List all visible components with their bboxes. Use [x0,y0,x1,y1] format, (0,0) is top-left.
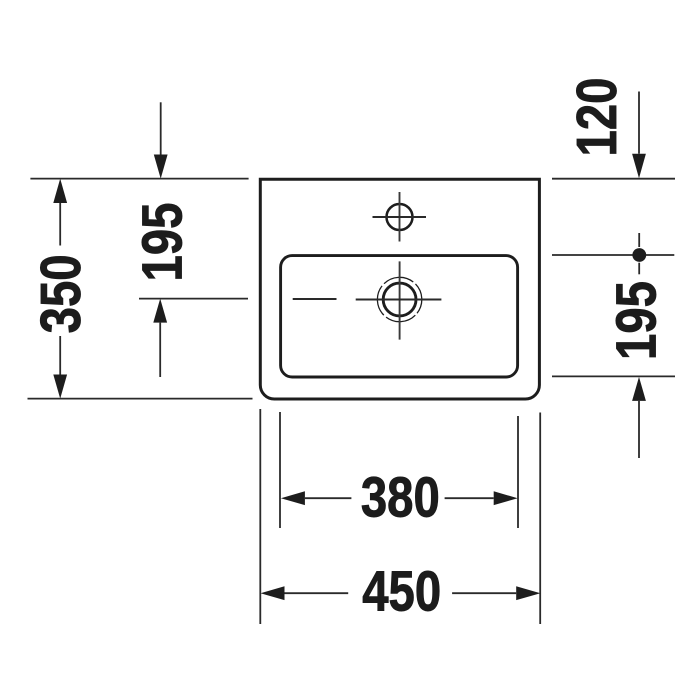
faucet hole vertical centerline [399,192,401,242]
svg-text:450: 450 [362,560,441,623]
dimension 120 arrow (pointing down) [632,92,646,179]
overflow vertical centerline [399,261,401,339]
extension line bottom far-right (450 datum) [539,413,541,625]
faucet hole circle [387,204,413,230]
svg-text:195: 195 [605,281,668,360]
dimension 450 right arrow [452,586,540,600]
extension line top right (120 datum) [552,178,675,180]
extension line bottom left (350 datum) [28,398,253,400]
dot centerline below [638,263,640,275]
extension line bottom left (380 datum) [279,412,281,528]
extension line top left (350/195 datum) [30,178,248,180]
svg-text:350: 350 [30,254,93,333]
dimension 195 right arrow (pointing up) [632,377,646,458]
overflow hole inner circle [383,283,416,316]
extension line mid left (195 datum) [139,298,248,300]
dimension 195 left upper arrow (pointing down) [154,102,168,178]
svg-text:380: 380 [361,466,440,529]
washbasin inner bowl outline [281,256,518,377]
overflow hole outer circle [368,268,431,331]
dimension 350 lower arrow [53,336,67,399]
extension line bottom right (195 datum) [552,375,675,377]
dimension 195 left lower arrow (pointing up) [153,299,167,377]
reference line at tap level (195 right datum) [552,254,674,256]
extension line bottom far-left (450 datum) [259,409,261,624]
dimension 450 left arrow [261,586,349,600]
reference dot [632,248,646,262]
overflow horizontal centerline [356,299,442,301]
dimension 350 upper arrow [53,179,67,246]
extension line bottom right (380 datum) [517,416,519,528]
dot centerline above [638,233,640,247]
dimension 380 right arrow [445,491,518,505]
centerline segment toward overflow [293,298,337,300]
dimension 380 left arrow [281,491,352,505]
svg-text:195: 195 [131,203,194,282]
faucet hole horizontal centerline [373,216,427,218]
svg-text:120: 120 [566,78,629,157]
washbasin outer outline [260,179,539,399]
